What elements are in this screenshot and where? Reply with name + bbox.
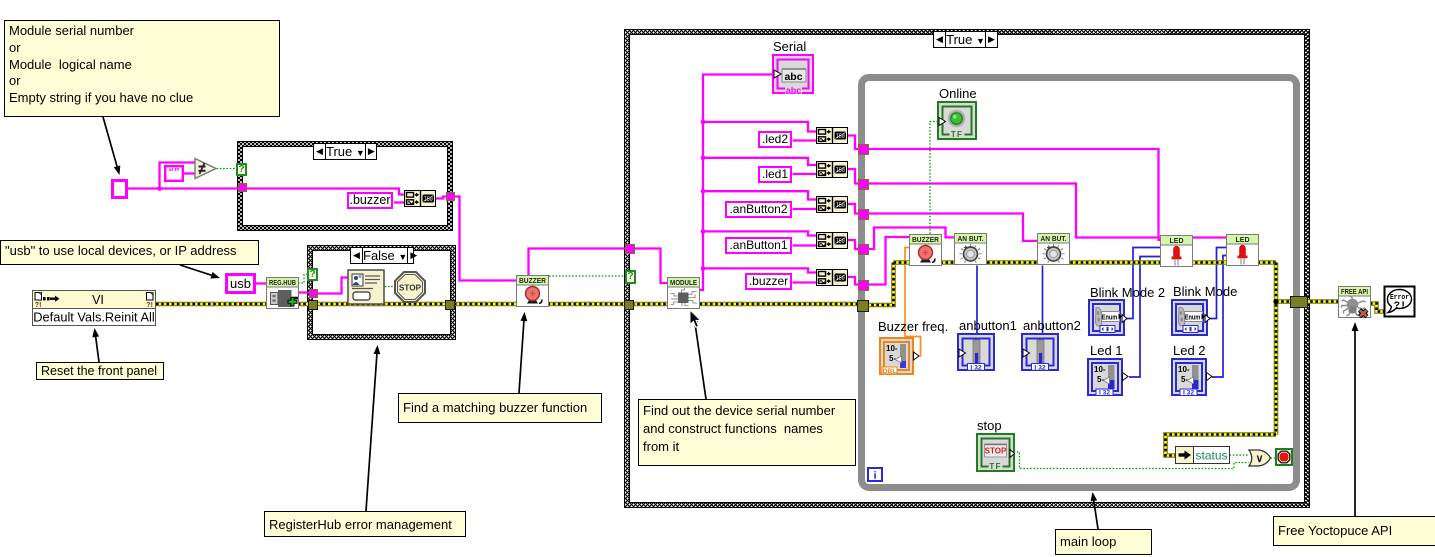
- string constant .led2: [758, 131, 792, 148]
- svg-text:STOP: STOP: [399, 284, 422, 293]
- svg-text:“”: “”: [169, 166, 180, 178]
- concatenate strings #2: [816, 127, 848, 144]
- svg-text:FREE API: FREE API: [1341, 287, 1368, 296]
- VI free API (FREE API): [1338, 286, 1371, 319]
- label Serial: [773, 39, 806, 54]
- wire: branch up to not-equal input: [160, 163, 196, 189]
- svg-text:10-: 10-: [1094, 365, 1106, 374]
- wire: concat anButton1 out to loop tunnel: [848, 240, 858, 249]
- wire: concat led1 out to loop tunnel: [848, 169, 858, 184]
- error wire: case tunnel to FREE API: [1305, 299, 1339, 304]
- wire: concat anButton2 out to loop tunnel: [848, 204, 858, 214]
- svg-text:Enum: Enum: [1185, 312, 1201, 321]
- svg-text:TF: TF: [951, 130, 963, 139]
- svg-text:REG.HUB: REG.HUB: [269, 278, 296, 287]
- VI anButton1 (AN BUT.): [954, 233, 987, 266]
- tunnel: string into small True case: [238, 183, 247, 192]
- annotation arrow to BUZZER VI: [519, 312, 527, 393]
- VI led1 (LED): [1160, 235, 1193, 268]
- selector terminal ? False case: [307, 268, 318, 281]
- one-button-dialog icon: [347, 269, 385, 305]
- svg-text:?!: ?!: [35, 302, 42, 309]
- label Blink Mode 2: [1090, 285, 1165, 300]
- wire: stop button to Or: [1014, 452, 1250, 469]
- svg-text:5-: 5-: [1181, 375, 1188, 384]
- svg-text:5-: 5-: [1097, 375, 1104, 384]
- or function: [1248, 449, 1272, 467]
- svg-text:VI: VI: [92, 293, 104, 307]
- string indicator Serial: [772, 54, 814, 94]
- wire: status node to Or: [1230, 454, 1250, 456]
- enum control Blink Mode: [1171, 299, 1212, 337]
- label Buzzer freq.: [878, 319, 948, 334]
- string constant usb: [225, 273, 256, 294]
- label Online: [939, 86, 977, 101]
- wire: Led 1 knob to LED1 VI: [1129, 257, 1161, 378]
- wire: .anButton1 constant to concat: [793, 244, 817, 246]
- wire: anButton2 name row to AN BUT 2 VI: [867, 214, 1038, 241]
- wire: False tunnel to dialog icon: [316, 278, 348, 294]
- svg-text:?!: ?!: [1394, 300, 1407, 312]
- tunnel: string into big case: [625, 244, 635, 254]
- tunnel: error into big case: [624, 300, 634, 310]
- enum control Blink Mode 2: [1088, 299, 1129, 337]
- boolean indicator Online: [937, 101, 977, 140]
- note: main loop: [1055, 529, 1152, 555]
- svg-text:abc: abc: [786, 86, 802, 95]
- wire: empty string to not-equal input: [183, 172, 195, 174]
- svg-text:5-: 5-: [889, 354, 896, 363]
- VI anButton2 (AN BUT.): [1037, 233, 1070, 266]
- selector label True (big case): [933, 31, 998, 48]
- selector terminal ? big case: [625, 270, 636, 284]
- numeric control Buzzer freq. (DBL): [879, 337, 919, 375]
- string constant .buzzer (True case): [347, 192, 393, 209]
- svg-text:status: status: [1195, 449, 1227, 463]
- concatenate strings #4: [816, 196, 848, 213]
- wire: concat buzzer out to loop tunnel: [848, 277, 858, 285]
- note: free yoctopuce api: [1273, 516, 1435, 546]
- label Led 1: [1090, 343, 1123, 358]
- wire: .led1 constant to concat: [793, 173, 817, 175]
- string constant .buzzer (big case): [745, 273, 792, 290]
- error wire: REG.HUB to False case: [298, 302, 309, 307]
- note: module serial number: [4, 20, 280, 117]
- string constant .anButton2: [725, 201, 792, 218]
- svg-text:I 32: I 32: [970, 364, 982, 371]
- error wire: loop tunnel up to VI row: [866, 263, 894, 306]
- wire: BUZZER VI up to big case tunnel: [529, 249, 626, 277]
- VI find buzzer (BUZZER): [516, 275, 549, 308]
- tunnel: anButton2 name into loop: [858, 209, 869, 220]
- tunnel: error into False case: [308, 300, 318, 310]
- svg-text:Enum: Enum: [1102, 312, 1118, 321]
- label Blink Mode: [1173, 284, 1237, 299]
- error wire: to status node: [1166, 435, 1277, 456]
- error wire: across VI row: [894, 260, 1277, 265]
- note: usb: [0, 240, 259, 265]
- svg-text:I 32: I 32: [1034, 364, 1046, 371]
- svg-text:MODULE: MODULE: [670, 278, 697, 287]
- annotation arrow to main loop border: [1091, 492, 1099, 529]
- note: find out device serial: [638, 399, 856, 466]
- wire: REG.HUB error bool to False selector: [298, 275, 307, 284]
- wire: buzzer name row to loop BUZZER VI: [867, 237, 910, 285]
- wire: AN BUT 1 to anbutton1 slider: [976, 266, 978, 334]
- svg-text:?!: ?!: [146, 302, 153, 309]
- VI led2 (LED): [1226, 234, 1259, 267]
- annotation arrow to VI node: [92, 328, 99, 362]
- svg-text:STOP: STOP: [984, 446, 1006, 455]
- label Led 2: [1173, 343, 1206, 358]
- shared variable node status: [1175, 446, 1230, 464]
- selector terminal ? small True case: [236, 163, 247, 176]
- junction dots on string wires: [157, 120, 705, 271]
- wire: True case out down to BUZZER VI: [453, 197, 518, 281]
- concatenate strings #5: [816, 232, 848, 249]
- wire: serial branch to concat anButton2: [703, 191, 816, 199]
- svg-text:10-: 10-: [886, 344, 898, 353]
- annotation arrow to FREE API VI: [1352, 322, 1359, 516]
- svg-text:abc: abc: [784, 71, 802, 83]
- wire: serial branch to concat led1: [703, 158, 816, 165]
- error wire: VI node to REG.HUB: [156, 302, 266, 307]
- svg-text:i: i: [873, 470, 876, 482]
- wire: concat led2 out to loop tunnel: [848, 136, 858, 150]
- selector label False: [350, 247, 414, 264]
- wire: Led 2 knob to LED2 VI: [1212, 256, 1227, 378]
- case structure: False case: [307, 245, 456, 340]
- concatenate strings #6: [816, 269, 848, 286]
- svg-text:BUZZER: BUZZER: [912, 235, 940, 244]
- concatenate strings #1: [404, 190, 436, 207]
- tunnel: led1 name into loop: [858, 179, 869, 190]
- wire: dialog to stop sign: [385, 286, 395, 288]
- VI module (MODULE): [667, 277, 700, 310]
- wire: big case tunnel to MODULE VI: [633, 249, 668, 284]
- wire: serial branch to concat buzzer: [703, 268, 816, 272]
- annotation arrow to False case: [366, 345, 380, 511]
- tunnel: buzzer name into loop: [858, 280, 869, 291]
- wire: not-equal result to True case selector: [217, 168, 237, 170]
- svg-text:Default Vals.Reinit All: Default Vals.Reinit All: [33, 310, 154, 325]
- VI buzzer set (BUZZER) in loop: [909, 234, 942, 267]
- case structure: big True case: [624, 29, 1310, 508]
- label stop: [977, 418, 1002, 433]
- error out indicator: [1383, 285, 1416, 318]
- svg-text:AN BUT.: AN BUT.: [1040, 234, 1066, 243]
- svg-text:I 32: I 32: [1183, 390, 1194, 396]
- wire: .buzzer constant to concat: [394, 201, 404, 203]
- wire: anButton1 name row to AN BUT 1 VI: [867, 228, 955, 250]
- wire: online status to Online indicator: [930, 122, 938, 235]
- tunnel: string into False case: [309, 289, 318, 298]
- annotation arrow to usb constant: [180, 265, 220, 279]
- wire: .buzzer constant to concat: [793, 281, 817, 283]
- tunnel: anButton1 name into loop: [858, 244, 869, 255]
- wire: REG.HUB to False case tunnel: [298, 291, 309, 293]
- slider control anbutton2 (I32): [1021, 333, 1059, 371]
- note: find matching buzzer: [398, 393, 602, 423]
- tunnel: string out of small True case: [446, 192, 455, 201]
- svg-text:LED: LED: [1170, 236, 1185, 245]
- annotation arrow to module name control: [103, 117, 120, 175]
- knob control Led 1 (I32): [1087, 358, 1129, 396]
- string constant .led1: [758, 166, 792, 183]
- error wire: down right side of loop: [1274, 263, 1279, 435]
- error wire: through False case: [315, 302, 446, 307]
- wire: Or to loop condition terminal: [1271, 457, 1277, 459]
- loop iteration terminal i: [867, 467, 883, 482]
- mouse cursor: [689, 309, 703, 329]
- selector label True (small case): [313, 143, 377, 160]
- tunnel: led2 name into loop: [858, 144, 869, 155]
- label anbutton1: [959, 318, 1017, 333]
- wire: Buzzer freq dial to loop BUZZER VI: [905, 248, 921, 357]
- annotation arrow to MODULE VI: [691, 313, 706, 399]
- boolean control stop: [976, 433, 1015, 472]
- wire: Blink Mode enum to LED2 VI: [1209, 248, 1227, 319]
- svg-text:10-: 10-: [1178, 365, 1190, 374]
- string control (module name): [111, 179, 128, 199]
- wire: MODULE out up to Serial indicator: [700, 75, 773, 291]
- note: registerhub error management: [264, 511, 466, 537]
- note: reset front panel: [36, 362, 164, 380]
- label anbutton2: [1023, 318, 1081, 333]
- wire: led1 name row to LED2 VI: [867, 184, 1227, 238]
- wire: .led2 constant to concat: [793, 139, 817, 141]
- error wire: False case to big case: [454, 302, 625, 307]
- wire: serial branch to concat led2: [703, 122, 816, 132]
- concatenate strings #3: [816, 161, 848, 178]
- error wire: branch to loop out tunnel: [1276, 299, 1291, 304]
- wire: True case tunnel to concat: [246, 189, 404, 195]
- svg-text:DBL: DBL: [883, 368, 897, 375]
- wire: module name control to True case tunnel: [127, 187, 238, 189]
- stop sign icon: [393, 270, 427, 304]
- junction dot on error wire: [1273, 299, 1278, 304]
- invoke node VI: Default Vals.Reinit All: [32, 290, 156, 326]
- svg-text:TF: TF: [989, 462, 1001, 471]
- svg-text:AN BUT.: AN BUT.: [958, 234, 984, 243]
- tunnel: error out of loop and case: [1290, 296, 1308, 308]
- wire: concat out to True case right tunnel: [436, 197, 446, 199]
- wire: usb constant to REG.HUB: [254, 282, 266, 284]
- knob control Led 2 (I32): [1171, 358, 1213, 396]
- svg-text:BUZZER: BUZZER: [519, 276, 547, 285]
- loop condition terminal: [1275, 448, 1293, 466]
- while loop (main loop): [858, 74, 1300, 491]
- not equal? function: [194, 157, 218, 180]
- wire: BUZZER found bool to big case selector: [549, 275, 625, 277]
- VI RegisterHub (REG.HUB): [266, 277, 299, 310]
- case structure: small True case: [237, 141, 453, 231]
- svg-text:LED: LED: [1235, 235, 1250, 244]
- tunnel: error into loop: [857, 300, 869, 312]
- svg-text:I 32: I 32: [1099, 390, 1110, 396]
- string constant .anButton1: [725, 237, 792, 254]
- svg-text:∨: ∨: [1255, 453, 1263, 465]
- slider control anbutton1 (I32): [957, 333, 995, 371]
- wire: Blink Mode 2 enum to LED1 VI: [1126, 248, 1161, 319]
- error wire: FREE API to error out: [1370, 304, 1384, 312]
- wire: serial branch to concat anButton1: [703, 231, 816, 235]
- wire: .anButton2 constant to concat: [793, 208, 817, 210]
- error wire: big case tunnel to loop: [632, 302, 858, 307]
- wire: led2 name row to LED1 VI: [867, 149, 1161, 240]
- tunnel: error out of False case: [445, 300, 455, 310]
- wire: AN BUT 2 to anbutton2 slider: [1042, 266, 1044, 334]
- empty string constant: [164, 165, 184, 182]
